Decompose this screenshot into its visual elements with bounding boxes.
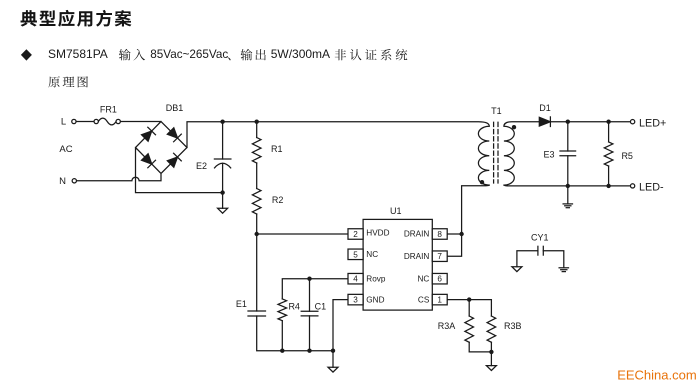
svg-text:CY1: CY1 — [531, 232, 549, 242]
svg-text:DRAIN: DRAIN — [404, 229, 430, 238]
svg-text:2: 2 — [353, 230, 358, 239]
svg-text:R5: R5 — [621, 151, 633, 161]
svg-text:C1: C1 — [315, 301, 327, 311]
svg-text:CS: CS — [418, 296, 430, 305]
svg-text:E2: E2 — [196, 161, 207, 171]
svg-text:EEChina.com: EEChina.com — [617, 368, 696, 383]
svg-text:85Vac~265Vac: 85Vac~265Vac — [150, 48, 228, 61]
svg-text:R2: R2 — [272, 195, 284, 205]
svg-text:AC: AC — [59, 144, 72, 155]
svg-text:LED-: LED- — [639, 182, 664, 194]
svg-text:E1: E1 — [236, 299, 247, 309]
svg-text:R3A: R3A — [438, 321, 456, 331]
svg-text:N: N — [59, 176, 66, 187]
svg-text:3: 3 — [353, 296, 358, 305]
svg-text:SM7581PA: SM7581PA — [48, 47, 108, 61]
svg-text:HVDD: HVDD — [366, 228, 389, 237]
svg-text:6: 6 — [437, 275, 442, 284]
svg-text:4: 4 — [353, 275, 358, 284]
svg-text:5W/300mA: 5W/300mA — [271, 47, 330, 61]
svg-text:GND: GND — [366, 296, 384, 305]
svg-text:NC: NC — [417, 275, 429, 284]
svg-text:NC: NC — [366, 250, 378, 259]
svg-text:8: 8 — [437, 230, 442, 239]
svg-text:R4: R4 — [288, 301, 300, 311]
svg-text:T1: T1 — [491, 106, 502, 116]
svg-text:R3B: R3B — [504, 321, 522, 331]
svg-text:E3: E3 — [543, 149, 554, 159]
svg-text:1: 1 — [437, 296, 442, 305]
svg-text:R1: R1 — [271, 144, 283, 154]
svg-text:LED+: LED+ — [639, 117, 666, 129]
svg-text:FR1: FR1 — [100, 105, 117, 115]
svg-text:5: 5 — [353, 250, 358, 259]
svg-text:7: 7 — [437, 252, 442, 261]
svg-text:U1: U1 — [390, 206, 402, 216]
svg-text:L: L — [61, 117, 66, 128]
svg-text:DB1: DB1 — [166, 103, 184, 113]
svg-text:Rovp: Rovp — [366, 275, 386, 284]
svg-text:DRAIN: DRAIN — [404, 252, 430, 261]
svg-text:D1: D1 — [539, 103, 551, 113]
